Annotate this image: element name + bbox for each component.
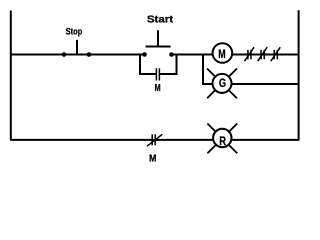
wire: G lamp to right rail: [232, 83, 300, 85]
pushbutton Stop (NC): [62, 25, 92, 56]
wire: top rung middle segment: [172, 54, 214, 56]
wire: top rung right segment through overloads: [232, 54, 299, 56]
svg-text:G: G: [219, 76, 226, 90]
contact M (NC) on bottom rung: [147, 134, 162, 164]
pilot light G: [207, 69, 237, 99]
svg-text:M: M: [155, 83, 161, 94]
wire: top rung left segment: [10, 54, 145, 56]
wire: branch down to G lamp: [203, 55, 213, 85]
svg-text:M: M: [149, 153, 157, 164]
bottom rung wire: [10, 139, 299, 141]
left rail L1: [10, 11, 12, 141]
coil M (motor starter): [213, 43, 233, 63]
pilot light R: [207, 124, 237, 154]
svg-text:R: R: [219, 134, 226, 148]
contact M seal-in (NO): [155, 68, 161, 94]
svg-text:Start: Start: [147, 15, 174, 26]
overload contact OL2 (NC): [258, 47, 268, 61]
svg-text:Stop: Stop: [66, 25, 83, 36]
wire: seal-in branch right: [160, 55, 177, 75]
svg-text:M: M: [218, 47, 225, 61]
overload contact OL1 (NC): [245, 47, 255, 61]
right rail L2: [298, 10, 300, 140]
overload contact OL3 (NC): [271, 47, 281, 61]
pushbutton Start (NO): [142, 15, 174, 57]
wire: seal-in branch left: [140, 55, 156, 75]
